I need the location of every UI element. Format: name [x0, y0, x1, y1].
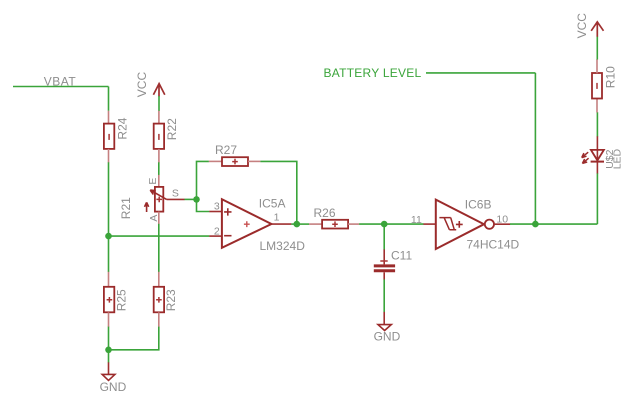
op-amp U1 pin 3 stub [209, 211, 221, 213]
svg-text:R22: R22 [165, 118, 179, 140]
resistor R25 pin top [108, 272, 110, 287]
junction node output/battery level/LED [532, 221, 539, 228]
svg-text:IC5A: IC5A [259, 197, 286, 211]
resistor R22 pin bottom [158, 149, 160, 163]
svg-text:S: S [172, 187, 179, 199]
wire R10 to VCC [596, 37, 598, 60]
capacitor C11 value dash [380, 260, 387, 262]
ground stub under C11 [383, 312, 385, 325]
capacitor C11 pin top [383, 249, 385, 264]
trimmer R21 adjustment arrow [145, 202, 149, 212]
wire BATTERY LEVEL vertical [534, 73, 536, 224]
svg-text:R24: R24 [115, 117, 129, 139]
wire R27 right down to output node [260, 161, 296, 224]
inverter output bubble [485, 220, 494, 229]
resistor R24 body [104, 124, 114, 149]
wire BATTERY LEVEL horizontal [426, 72, 535, 74]
svg-text:R27: R27 [215, 143, 237, 157]
wire VCC to R22 [158, 96, 160, 111]
resistor R26 pin left [309, 223, 322, 225]
capacitor C11 plate top [374, 264, 395, 267]
resistor R23 pin top [158, 272, 160, 287]
op-amp plus input mark [224, 208, 231, 215]
wire R25 to bottom node [108, 327, 110, 350]
wire R23 down and left to bottom node [109, 327, 159, 350]
resistor R27 body [222, 157, 248, 166]
trimmer R21 value plus [156, 197, 162, 203]
svg-text:R23: R23 [164, 289, 178, 311]
svg-text:VCC: VCC [135, 72, 149, 98]
resistor R26 body [322, 220, 348, 229]
VCC symbol left arrow [153, 84, 164, 97]
inverter hysteresis mark [439, 218, 456, 230]
trimmer R21 body [155, 187, 163, 212]
wire node to R26 [297, 223, 309, 225]
resistor R25 body [104, 287, 114, 313]
svg-text:BATTERY LEVEL: BATTERY LEVEL [324, 66, 422, 80]
svg-text:VBAT: VBAT [44, 75, 77, 89]
inverter IC6B pin 11 stub [423, 223, 435, 225]
svg-text:R21: R21 [119, 197, 133, 219]
wire output to node [291, 223, 297, 225]
wire C11 to GND [383, 279, 385, 312]
inverter IC6B triangle [436, 200, 484, 249]
wire LED column up [596, 173, 598, 224]
LED U$2 anode stub [596, 136, 598, 173]
svg-text:IC6B: IC6B [465, 197, 492, 211]
junction node at R24/pin2 wire [105, 233, 112, 240]
svg-text:GND: GND [100, 380, 127, 394]
wire trimmer A to R23 [158, 224, 160, 272]
LED U$2 light arrow 2 [582, 158, 588, 163]
svg-text:10: 10 [496, 214, 508, 226]
resistor R22 pin top [158, 111, 160, 124]
resistor R26 value plus [332, 221, 338, 227]
svg-text:74HC14D: 74HC14D [467, 237, 520, 251]
wire node down and to op-amp pin 3 [197, 199, 210, 211]
wire R24 to node and R25 [108, 162, 110, 236]
wire node down to R25 [108, 236, 110, 272]
resistor R10 body [592, 73, 602, 99]
resistor R10 pin top [596, 59, 598, 73]
wire VBAT horizontal [13, 86, 109, 88]
svg-text:11: 11 [411, 214, 422, 226]
resistor R25 pin bottom [108, 312, 110, 327]
LED U$2 triangle [591, 150, 604, 161]
wire LED to R10 [596, 112, 598, 136]
junction node bottom GND [105, 347, 112, 354]
ground symbol left [102, 374, 115, 380]
resistor R24 value dash [108, 134, 110, 140]
svg-text:E: E [147, 178, 159, 185]
svg-text:GND: GND [374, 330, 401, 344]
resistor R25 value plus [107, 297, 113, 303]
resistor R10 value dash [596, 83, 598, 89]
wire node to LED column [535, 223, 597, 225]
svg-text:R26: R26 [314, 206, 336, 220]
VCC symbol right arrow [591, 22, 603, 37]
resistor R10 pin bottom [596, 99, 598, 113]
trimmer R21 pin E top [158, 175, 160, 187]
svg-text:VCC: VCC [575, 13, 589, 39]
inverter pin 10 stub [494, 223, 510, 225]
resistor R24 pin bottom [108, 149, 110, 163]
op-amp IC5A triangle [222, 199, 272, 248]
wire inverter output to node [510, 223, 535, 225]
op-amp minus input mark [224, 235, 231, 237]
wire bottom node to GND [108, 350, 110, 363]
wire pin2 from left node to op-amp [109, 235, 210, 237]
trimmer R21 pin A bottom [158, 212, 160, 225]
svg-text:LM324D: LM324D [260, 239, 306, 253]
op-amp U1 pin 2 stub [209, 235, 221, 237]
resistor R27 value plus [232, 159, 238, 165]
ground symbol under C11 [378, 325, 391, 331]
wire node to inverter input [384, 223, 423, 225]
wire node up to R27 left [197, 161, 209, 199]
resistor R26 pin right [348, 223, 359, 225]
wire node down to C11 [383, 224, 385, 250]
svg-text:R10: R10 [604, 66, 618, 88]
wire R22 to trimmer E [158, 162, 160, 175]
resistor R27 pin left [209, 160, 222, 162]
resistor R23 value plus [156, 297, 162, 303]
ground stub left [108, 362, 110, 374]
trimmer R21 pin S stub [167, 198, 185, 200]
junction node feedback/S/pin3 [193, 196, 200, 203]
svg-text:A: A [148, 215, 160, 222]
resistor R23 body [154, 287, 164, 313]
svg-text:2: 2 [214, 226, 220, 238]
trimmer R21 wiper diagonal with arrowhead [150, 190, 167, 200]
resistor R23 pin bottom [158, 312, 160, 327]
resistor R22 body [154, 124, 164, 149]
wire R26 to C11 node [359, 223, 384, 225]
LED U$2 cathode bar [591, 161, 604, 163]
resistor R22 value dash [158, 134, 160, 140]
svg-text:LED: LED [612, 148, 624, 169]
svg-text:R25: R25 [114, 289, 128, 311]
inverter plus mark [456, 221, 463, 228]
capacitor C11 pin bottom [383, 272, 385, 279]
op-amp origin cross [244, 221, 250, 227]
resistor R24 pin top [108, 111, 110, 124]
svg-text:1: 1 [274, 211, 280, 223]
wire S to feedback node [185, 198, 197, 200]
capacitor C11 plate bottom [374, 269, 395, 272]
svg-text:C11: C11 [391, 248, 412, 262]
wire VBAT down to R24 [108, 87, 110, 111]
svg-text:3: 3 [214, 201, 220, 213]
junction node output/feedback [294, 221, 301, 228]
resistor R27 pin right [248, 160, 260, 162]
op-amp pin 1 output stub [271, 223, 291, 225]
junction node R26/C11/inverter [381, 221, 388, 228]
LED U$2 light arrow 1 [582, 152, 589, 157]
